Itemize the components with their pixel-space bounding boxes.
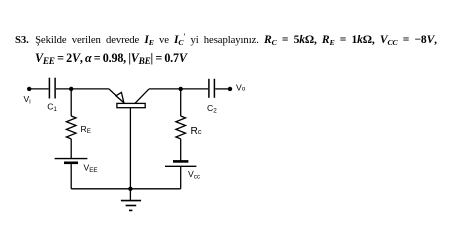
wire RC to VCC battery [180,139,182,162]
wire C1 to emitter [56,88,109,90]
svg-text:Vcc: Vcc [188,169,200,181]
node Vi terminal dot [27,87,31,91]
wire node A down to RE [70,89,72,116]
capacitor C2 [209,79,215,98]
node Vo terminal dot [228,87,232,91]
transistor Q1 base bar [117,103,145,107]
label VEE [84,163,98,175]
wire base lead to bottom rail [129,108,131,189]
svg-text:Vo: Vo [236,83,246,93]
label Vi [24,94,31,106]
svg-text:C1: C1 [47,101,57,113]
transistor Q1 emitter arrowhead (PNP) [116,92,124,102]
wire bottom rail [71,188,181,190]
battery VEE [55,159,88,163]
label C2 [207,103,217,115]
svg-text:RE: RE [81,124,91,135]
resistor RC [176,116,186,139]
transistor Q1 collector lead [135,89,149,104]
node B junction dot (collector / RC) [179,87,183,91]
svg-text:Rc: Rc [191,126,202,137]
wire VEE to bottom rail [70,164,72,189]
svg-text:Vi: Vi [24,94,31,106]
svg-text:VEE: VEE [84,163,98,175]
label VCC [188,169,200,181]
node A junction dot (emitter / RE) [69,87,73,91]
battery VCC [165,161,196,166]
node ground junction dot [128,187,132,191]
label C1 [47,101,57,113]
wire C2 to Vo [215,88,230,90]
label RE [81,124,91,135]
ground [121,189,141,211]
capacitor C1 [49,78,55,99]
transistor Q1 emitter lead [109,89,119,98]
wire collector to C2 [149,88,208,90]
label Vo [236,83,246,93]
wire RE to VEE battery [70,139,72,159]
wire Vi to C1 [29,88,48,90]
resistor RE [66,116,76,139]
wire node B down to RC [180,89,182,116]
label RC [191,126,202,137]
svg-text:C2: C2 [207,103,217,115]
wire VCC to bottom rail [180,166,182,189]
